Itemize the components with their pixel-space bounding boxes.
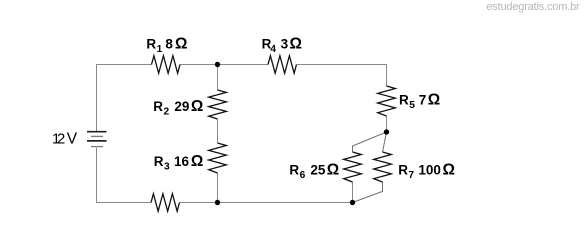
svg-text:16: 16: [174, 154, 190, 169]
wire R6 top lead: [353, 132, 387, 152]
svg-text:Ω: Ω: [175, 36, 187, 53]
svg-text:4: 4: [270, 44, 276, 55]
wire top middle segment: [180, 64, 268, 66]
svg-text:5: 5: [409, 100, 415, 111]
svg-text:Ω: Ω: [443, 161, 455, 178]
svg-text:estudegratis.com.br: estudegratis.com.br: [486, 1, 580, 13]
wire left bottom segment: [97, 148, 152, 203]
node junction bottom middle: [215, 200, 220, 205]
svg-text:R: R: [398, 162, 408, 177]
resistor R3: [209, 143, 227, 173]
resistor R6: [344, 152, 362, 182]
label R6 25 ohm: [289, 161, 339, 181]
svg-text:8: 8: [165, 37, 173, 52]
node junction top middle: [215, 62, 220, 67]
resistor R8 unlabeled bottom: [151, 194, 180, 212]
resistor R7: [374, 152, 392, 182]
wire right below R5: [386, 116, 388, 132]
wire middle branch lower: [217, 173, 219, 203]
svg-text:R: R: [154, 154, 164, 169]
svg-text:25: 25: [310, 162, 326, 177]
wire middle branch upper: [217, 65, 219, 91]
svg-text:6: 6: [300, 170, 306, 181]
resistor R5: [378, 86, 396, 116]
label R2 29 ohm: [153, 98, 203, 118]
wire middle branch between R2 and R3: [217, 119, 219, 143]
wire top-left segment: [97, 65, 152, 132]
svg-text:2: 2: [164, 107, 170, 118]
svg-text:Ω: Ω: [191, 153, 203, 170]
wire bottom segment: [180, 202, 353, 204]
label R3 16 ohm: [154, 153, 204, 173]
svg-text:R: R: [153, 99, 163, 114]
wire top right segment: [297, 65, 387, 87]
svg-text:3: 3: [164, 162, 170, 173]
wire R7 top lead: [383, 132, 387, 152]
svg-text:R: R: [399, 93, 409, 108]
resistor R1: [152, 56, 181, 74]
svg-text:7: 7: [419, 93, 427, 108]
label R1 8 ohm: [146, 36, 187, 55]
svg-text:Ω: Ω: [428, 92, 440, 109]
resistor R4: [268, 56, 297, 74]
svg-text:100: 100: [418, 162, 441, 177]
label R7 100 ohm: [398, 161, 455, 181]
svg-text:Ω: Ω: [327, 161, 339, 178]
svg-text:Ω: Ω: [290, 36, 302, 53]
svg-text:V: V: [67, 131, 78, 148]
wire R6 bottom lead: [352, 182, 354, 203]
resistor R2: [209, 90, 227, 119]
svg-text:R: R: [146, 37, 156, 52]
svg-text:Ω: Ω: [191, 98, 203, 115]
svg-text:3: 3: [281, 37, 289, 52]
battery V1: [87, 132, 107, 147]
node junction right below R5: [384, 129, 389, 134]
svg-text:7: 7: [408, 170, 414, 181]
svg-text:1: 1: [157, 44, 163, 55]
svg-text:29: 29: [174, 99, 189, 114]
svg-text:R: R: [289, 162, 299, 177]
label R5 7 ohm: [399, 92, 440, 111]
label R4 3 ohm: [262, 36, 302, 55]
node junction bottom right: [350, 200, 355, 205]
wire R7 bottom lead: [353, 182, 383, 203]
